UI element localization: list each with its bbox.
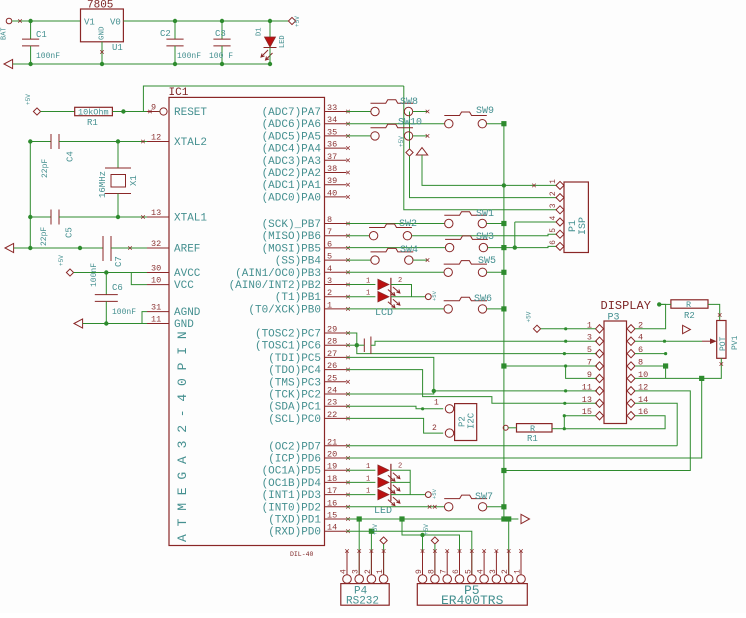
svg-text:D1: D1: [256, 28, 264, 36]
svg-text:8: 8: [327, 215, 332, 225]
power symbol +5V up-triangle near ISP: [416, 148, 427, 155]
wire ISP pin4 down to PB5 row: [514, 222, 516, 248]
svg-text:40: 40: [327, 188, 337, 198]
wire top rail 7805 V0 to +5V: [123, 20, 288, 22]
svg-text:10: 10: [151, 276, 161, 286]
svg-text:14: 14: [327, 523, 337, 533]
wire PB5/MOSI to SW3: [347, 247, 446, 249]
svg-text:28: 28: [327, 337, 337, 347]
pin 25 (TMS)PC3: [325, 381, 347, 383]
wire PD5 to LED: [347, 469, 376, 471]
wire AGND joins GND: [142, 312, 147, 324]
wire DISPLAY pin15 to R1: [564, 416, 595, 429]
svg-text:PV1: PV1: [731, 335, 740, 350]
svg-text:DISPLAY: DISPLAY: [601, 299, 651, 313]
pot wiper arrow: [702, 340, 712, 342]
svg-text:RS232: RS232: [346, 596, 379, 608]
svg-text:(INT0)PD2: (INT0)PD2: [262, 502, 321, 514]
wire PB2 to LED1: [347, 284, 376, 286]
svg-text:13: 13: [582, 395, 592, 405]
svg-text:SW4: SW4: [400, 245, 418, 256]
pin 5 (SS)PB4: [325, 259, 347, 261]
svg-text:R2: R2: [684, 311, 695, 321]
wire PC6 cap to DISPLAY pin3: [371, 341, 597, 345]
svg-text:(TXD)PD1: (TXD)PD1: [268, 515, 321, 527]
wire DISPLAY pin2 to R2 net: [635, 304, 666, 328]
svg-text:(ICP)PD6: (ICP)PD6: [268, 454, 321, 466]
svg-text:C7: C7: [114, 256, 124, 267]
wire SW1 to GND column: [487, 223, 504, 225]
wire GND column to TXD row: [503, 507, 505, 519]
svg-text:22pF: 22pF: [40, 227, 49, 246]
svg-text:1: 1: [366, 278, 370, 286]
svg-text:100nF: 100nF: [90, 263, 99, 287]
svg-text:(ADC0)PA0: (ADC0)PA0: [262, 192, 321, 204]
wire C7 to AREF pin: [111, 247, 147, 249]
pin 4 of DISPLAY: [627, 337, 635, 345]
switch SW2 on PB6: [369, 224, 412, 240]
svg-text:POT: POT: [719, 336, 728, 351]
wire SW10 right stub: [413, 135, 427, 137]
wire TXD branch to P4 pin3: [358, 519, 360, 575]
svg-text:(TCK)PC2: (TCK)PC2: [268, 390, 321, 402]
wire PA7 to SW8: [347, 111, 372, 113]
svg-text:+5V: +5V: [431, 290, 438, 301]
svg-text:9: 9: [151, 103, 156, 113]
wire RESET net up and over IC to ISP: [143, 86, 403, 112]
svg-text:(SCL)PC0: (SCL)PC0: [268, 414, 321, 426]
pin 35 (ADC5)PA5: [325, 135, 347, 137]
supply +5V symbol +5V at P4 pin1: [380, 537, 387, 544]
pin 2 of P5: [504, 575, 513, 584]
svg-text:LED: LED: [279, 35, 287, 48]
svg-text:20: 20: [327, 450, 337, 460]
svg-text:RESET: RESET: [174, 107, 207, 119]
connector P3 DISPLAY: [604, 321, 627, 424]
wire pot bottom to DISPLAY pin10 row: [666, 358, 722, 378]
svg-text:+5V: +5V: [58, 255, 65, 266]
wire PB3 to SW5: [347, 271, 444, 273]
svg-text:19: 19: [327, 462, 337, 472]
diode LED4 on PD4: [378, 477, 389, 487]
svg-text:(AIN1/OC0)PB3: (AIN1/OC0)PB3: [235, 268, 321, 280]
wire SW5 to GND column: [487, 271, 504, 273]
svg-text:(TDI)PC5: (TDI)PC5: [268, 353, 321, 365]
svg-text:3: 3: [327, 276, 332, 286]
supply +5V symbol +5V at switch column: [406, 149, 413, 156]
svg-text:(ADC5)PA5: (ADC5)PA5: [262, 131, 321, 143]
svg-text:1: 1: [514, 569, 523, 574]
svg-text:23: 23: [327, 398, 337, 408]
svg-text:16: 16: [327, 498, 337, 508]
connector BAT input: [6, 18, 12, 24]
wire DISPLAY pin6 stub: [635, 353, 666, 355]
pin 12 of DISPLAY: [627, 387, 635, 395]
svg-text:SW9: SW9: [476, 106, 494, 117]
wire C5 to XTAL1 pin: [59, 216, 147, 218]
svg-text:32: 32: [151, 239, 161, 249]
wire GND column to DISPLAY pin7: [504, 365, 597, 367]
svg-text:5: 5: [327, 252, 332, 262]
wire RESET down to ISP pin3: [404, 86, 557, 210]
svg-text:SW2: SW2: [399, 219, 417, 230]
wire +5V to DISPLAY pin1: [541, 328, 596, 330]
wire LED cathodes out bottom: [391, 494, 425, 496]
pin 30 AVCC: [147, 272, 169, 274]
svg-text:1: 1: [366, 290, 370, 298]
svg-text:24: 24: [327, 386, 337, 396]
pin 8 of P5: [431, 575, 440, 584]
pin 6 of DISPLAY: [627, 349, 635, 357]
wire R2 left: [659, 303, 671, 305]
wire +5V to AVCC: [74, 272, 147, 274]
pin 11 of DISPLAY: [596, 387, 604, 395]
svg-text:I2C: I2C: [467, 412, 477, 429]
wire PC1/SDA to P2 pin1: [347, 406, 444, 409]
svg-text:R: R: [530, 424, 535, 434]
svg-text:R1: R1: [527, 434, 538, 444]
svg-text:(SCK)_PB7: (SCK)_PB7: [262, 219, 321, 231]
pin 1 of ISP: [556, 181, 564, 189]
svg-text:GND: GND: [99, 26, 107, 40]
wire SW6 to GND column: [487, 308, 504, 310]
pin 5 of P5: [468, 575, 477, 584]
svg-text:100nF: 100nF: [112, 308, 136, 317]
svg-text:39: 39: [327, 176, 337, 186]
wire +5V to P4 pin1: [383, 544, 385, 575]
svg-text:6: 6: [327, 239, 332, 249]
svg-text:R: R: [686, 300, 691, 310]
switch SW3 on PB5: [445, 236, 488, 252]
pin 26 (TDO)PC4: [325, 369, 347, 371]
pin 3 of DISPLAY: [596, 337, 604, 345]
svg-text:16MHz: 16MHz: [98, 171, 108, 198]
svg-text:+5V: +5V: [294, 16, 301, 27]
svg-text:(AIN0/INT2)PB2: (AIN0/INT2)PB2: [229, 280, 321, 292]
wire DISPLAY pin8: [635, 365, 666, 367]
wire LED4 cathode join: [391, 481, 410, 483]
svg-text:22pF: 22pF: [41, 159, 50, 178]
svg-text:(TMS)PC3: (TMS)PC3: [268, 377, 321, 389]
svg-text:7: 7: [327, 227, 332, 237]
switch SW5 on PB3: [444, 261, 487, 277]
svg-text:(TOSC1)PC6: (TOSC1)PC6: [255, 341, 321, 353]
pin 14 (RXD)PD0: [325, 530, 347, 532]
svg-text:1: 1: [549, 179, 558, 184]
svg-text:29: 29: [327, 325, 337, 335]
svg-text:(T1)PB1: (T1)PB1: [275, 292, 322, 304]
wire PD6/ICP row to pot net: [347, 378, 702, 458]
svg-text:27: 27: [327, 349, 337, 359]
wire PA6 to SW9: [347, 123, 445, 125]
pin 6 of ISP: [556, 242, 564, 250]
svg-text:11: 11: [582, 382, 592, 392]
capacitor C7 100nF: [103, 236, 111, 261]
pin 3 (AIN0/INT2)PB2: [325, 284, 347, 286]
svg-text:34: 34: [327, 115, 337, 125]
svg-text:(TOSC2)PC7: (TOSC2)PC7: [255, 329, 321, 341]
pin 3 of ISP: [556, 206, 564, 214]
svg-text:SW6: SW6: [474, 294, 492, 305]
pin 39 (ADC1)PA1: [325, 184, 347, 186]
pin 9 RESET: [147, 111, 159, 113]
svg-text:R1: R1: [87, 118, 98, 128]
pin 6 of P5: [455, 575, 464, 584]
wire +5V to P5 pin8: [434, 544, 436, 575]
wire to DISPLAY pin11: [434, 390, 597, 392]
capacitor C9 at TOSC: [364, 337, 371, 355]
svg-text:V1: V1: [84, 18, 95, 28]
svg-text:2: 2: [398, 277, 402, 285]
pin 13 of DISPLAY: [596, 399, 604, 407]
wire LED cathodes out: [391, 296, 425, 298]
svg-text:(ADC6)PA6: (ADC6)PA6: [262, 119, 321, 131]
wire SW8/SW10 outputs to +5V symbol: [409, 112, 411, 149]
pin 16 of DISPLAY: [627, 411, 635, 419]
svg-text:C1: C1: [36, 30, 47, 40]
junction circle on GND column at R1: [503, 425, 508, 430]
svg-text:(OC1B)PD4: (OC1B)PD4: [262, 478, 322, 490]
resistor R2: [671, 300, 708, 308]
pin 36 (ADC4)PA4: [325, 147, 347, 149]
svg-text:5: 5: [549, 228, 558, 233]
wire C4 to XTAL2 pin: [59, 141, 147, 143]
svg-text:1: 1: [376, 569, 385, 574]
svg-text:(SDA)PC1: (SDA)PC1: [268, 402, 321, 414]
svg-text:11: 11: [151, 315, 161, 325]
net port circle at LED triple: [425, 492, 431, 498]
wire PD1/TXD row: [347, 518, 519, 520]
wire R2 right to pot top: [708, 304, 720, 320]
svg-text:4: 4: [340, 569, 349, 574]
wire SW7 to GND column: [487, 506, 504, 508]
pin 11 GND: [147, 323, 169, 325]
svg-text:3: 3: [352, 569, 361, 574]
svg-text:(ADC3)PA3: (ADC3)PA3: [262, 156, 321, 168]
wire branch to P5 pin9: [422, 535, 424, 575]
wire ground rail of supply section: [13, 63, 270, 65]
svg-text:100nF: 100nF: [36, 52, 60, 61]
switch SW6 on PB0: [444, 297, 487, 313]
svg-text:(ADC4)PA4: (ADC4)PA4: [262, 144, 322, 156]
switch SW9 on PA6: [444, 112, 487, 128]
pin 28 (TOSC1)PC6: [325, 344, 347, 346]
ground symbol ground bottom-left of supply: [4, 59, 13, 68]
svg-text:DIL-40: DIL-40: [290, 551, 314, 558]
wire R1 to RESET pin: [112, 111, 159, 113]
resistor R1 near display: [517, 424, 553, 432]
pin 21 (OC2)PD7: [325, 445, 347, 447]
supply +5V symbol +5V at DISPLAY pin1: [533, 325, 540, 332]
svg-text:25: 25: [327, 373, 337, 383]
pin 1 of DISPLAY: [596, 325, 604, 333]
svg-text:33: 33: [327, 103, 337, 113]
svg-text:1: 1: [366, 475, 370, 483]
node junction C1/top rail: [28, 19, 32, 23]
ground symbol ground at AREF net: [5, 243, 14, 252]
svg-text:(INT1)PD3: (INT1)PD3: [262, 490, 321, 502]
wire PB1 to LED2: [347, 296, 376, 298]
pin 40 (ADC0)PA0: [325, 196, 347, 198]
svg-text:+5V: +5V: [25, 94, 32, 105]
svg-text:35: 35: [327, 127, 337, 137]
svg-text:2: 2: [432, 424, 437, 433]
svg-text:6: 6: [452, 569, 461, 574]
LED pair cathode bar: [390, 278, 392, 304]
diode LED5 on PD3: [378, 489, 389, 499]
connector P2 I2C: [455, 404, 477, 441]
svg-text:2: 2: [549, 191, 558, 196]
svg-text:4: 4: [327, 264, 332, 274]
pin 4 of ISP: [556, 218, 564, 226]
pin 37 (ADC3)PA3: [325, 159, 347, 161]
svg-text:AGND: AGND: [174, 307, 201, 319]
wire PD7/OC2 row to pin14 drop: [347, 445, 678, 447]
svg-text:(OC2)PD7: (OC2)PD7: [268, 441, 321, 453]
svg-text:2: 2: [364, 569, 373, 574]
wire DISPLAY pin12 down to GND column: [504, 391, 690, 471]
svg-text:C6: C6: [112, 283, 123, 293]
wire TOSC cap left: [357, 344, 365, 346]
diode LED1 on PB2: [378, 279, 389, 289]
pin 7 of DISPLAY: [596, 362, 604, 370]
switch SW1 on PB7: [444, 212, 487, 228]
wire R1 left to GND column: [508, 427, 516, 429]
pin 24 (TCK)PC2: [325, 393, 347, 395]
svg-text:8: 8: [427, 569, 436, 574]
svg-text:9: 9: [415, 569, 424, 574]
wire DISPLAY pin14 down: [635, 403, 677, 446]
pin 19 (OC1A)PD5: [325, 469, 347, 471]
supply +5V symbol +5V top rail: [288, 17, 295, 24]
svg-text:(ADC2)PA2: (ADC2)PA2: [262, 168, 321, 180]
svg-text:5: 5: [587, 345, 592, 355]
wire GND to ISP pin1: [422, 155, 557, 185]
svg-text:SW10: SW10: [398, 118, 422, 129]
svg-text:SW8: SW8: [400, 97, 418, 108]
pin 23 (SDA)PC1: [325, 405, 347, 407]
svg-text:1: 1: [366, 488, 370, 496]
pin 12 XTAL2: [147, 141, 169, 143]
pin 17 (INT1)PD3: [325, 494, 347, 496]
supply +5V symbol +5V at P5 pin8: [431, 537, 438, 544]
svg-text:15: 15: [327, 511, 337, 521]
svg-text:100nF: 100nF: [177, 52, 201, 61]
svg-text:26: 26: [327, 361, 337, 371]
pin 2 (T1)PB1: [325, 296, 347, 298]
svg-text:22: 22: [327, 410, 337, 420]
pin 4 of P4: [343, 575, 352, 584]
wire TXD branch to P5 pin2: [508, 519, 510, 575]
svg-text:2: 2: [501, 569, 510, 574]
svg-text:12: 12: [151, 133, 161, 143]
svg-text:21: 21: [327, 437, 337, 447]
pin 29 (TOSC2)PC7: [325, 332, 347, 334]
svg-text:3: 3: [489, 569, 498, 574]
pin 7 (MISO)PB6: [325, 235, 347, 237]
connector P4 RS232: [341, 584, 389, 606]
svg-text:13: 13: [151, 208, 161, 218]
voltage regulator U1 7805: [81, 9, 124, 42]
svg-text:+5V: +5V: [526, 311, 533, 322]
svg-text:3: 3: [587, 333, 592, 343]
pin 33 (ADC7)PA7: [325, 111, 347, 113]
wire PC5 and PC2 join: [347, 357, 434, 394]
wire DISPLAY pin10: [635, 377, 666, 379]
wire PD3 to LED: [347, 494, 376, 496]
svg-text:+5V: +5V: [372, 524, 379, 535]
svg-text:1: 1: [434, 399, 439, 408]
wire 7805 GND pin to ground rail: [101, 42, 103, 64]
supply +5V symbol +5V at R1: [33, 108, 40, 115]
pin 3 of P5: [492, 575, 501, 584]
svg-text:C3: C3: [215, 29, 226, 39]
wire pin8 to pin10 row: [665, 366, 667, 378]
svg-text:C2: C2: [160, 29, 171, 39]
svg-text:SW1: SW1: [476, 209, 494, 220]
wire ground row to GND pin: [83, 323, 147, 325]
svg-text:(OC1A)PD5: (OC1A)PD5: [262, 466, 321, 478]
wire GND column vertical: [503, 124, 505, 507]
svg-text:+5V: +5V: [423, 524, 430, 535]
wire LED3 cathode join: [391, 470, 410, 494]
svg-text:31: 31: [151, 303, 161, 313]
svg-text:7805: 7805: [87, 0, 113, 12]
capacitor C1 body: [30, 21, 32, 39]
wire PC6 stub join: [347, 344, 357, 346]
diode LED2 on PB1: [378, 292, 389, 302]
pin 1 (T0/XCK)PB0: [325, 308, 347, 310]
svg-text:XTAL2: XTAL2: [174, 137, 207, 149]
svg-text:(RXD)PD0: (RXD)PD0: [268, 527, 321, 539]
svg-text:17: 17: [327, 486, 337, 496]
wire PD2/INT0 to SW7: [347, 506, 445, 508]
pin 31 AGND: [147, 311, 169, 313]
pin 3 of P4: [355, 575, 364, 584]
pin 34 (ADC6)PA6: [325, 123, 347, 125]
wire branch to VCC pin: [131, 273, 147, 285]
pin 10 VCC: [147, 284, 169, 286]
svg-text:4: 4: [477, 569, 486, 574]
off-page arrow at TXD row: [521, 514, 530, 523]
wire SW8 right stub: [413, 111, 427, 113]
wire DISPLAY pin16 loop: [564, 416, 665, 429]
capacitor C5 22pF: [51, 210, 59, 225]
svg-text:2: 2: [327, 288, 332, 298]
pin 13 XTAL1: [147, 216, 169, 218]
wire XTAL1 row left: [30, 216, 51, 218]
pin 15 (TXD)PD1: [325, 518, 347, 520]
wire TXD jog to P5 pin6: [402, 519, 460, 575]
pin 20 (ICP)PD6: [325, 457, 347, 459]
svg-text:100 F: 100 F: [209, 52, 233, 61]
svg-text:LCD: LCD: [375, 308, 393, 319]
pin 14 of DISPLAY: [627, 399, 635, 407]
svg-text:9: 9: [587, 370, 592, 380]
svg-text:7: 7: [440, 569, 449, 574]
svg-text:(TDO)PC4: (TDO)PC4: [268, 365, 321, 377]
capacitor C2 body: [174, 21, 176, 39]
pin 38 (ADC2)PA2: [325, 172, 347, 174]
svg-text:C5: C5: [65, 227, 75, 238]
pin 10 of DISPLAY: [627, 374, 635, 382]
wire PC4/TDO to DISPLAY pin13: [347, 370, 598, 404]
svg-text:ATMEGA32-40PIN: ATMEGA32-40PIN: [175, 324, 190, 542]
pin 22 (SCL)PC0: [325, 417, 347, 419]
wire PC7/TOSC2 to DISPLAY pin5: [347, 333, 598, 354]
svg-text:4: 4: [549, 216, 558, 221]
wire R1 right: [552, 428, 564, 430]
